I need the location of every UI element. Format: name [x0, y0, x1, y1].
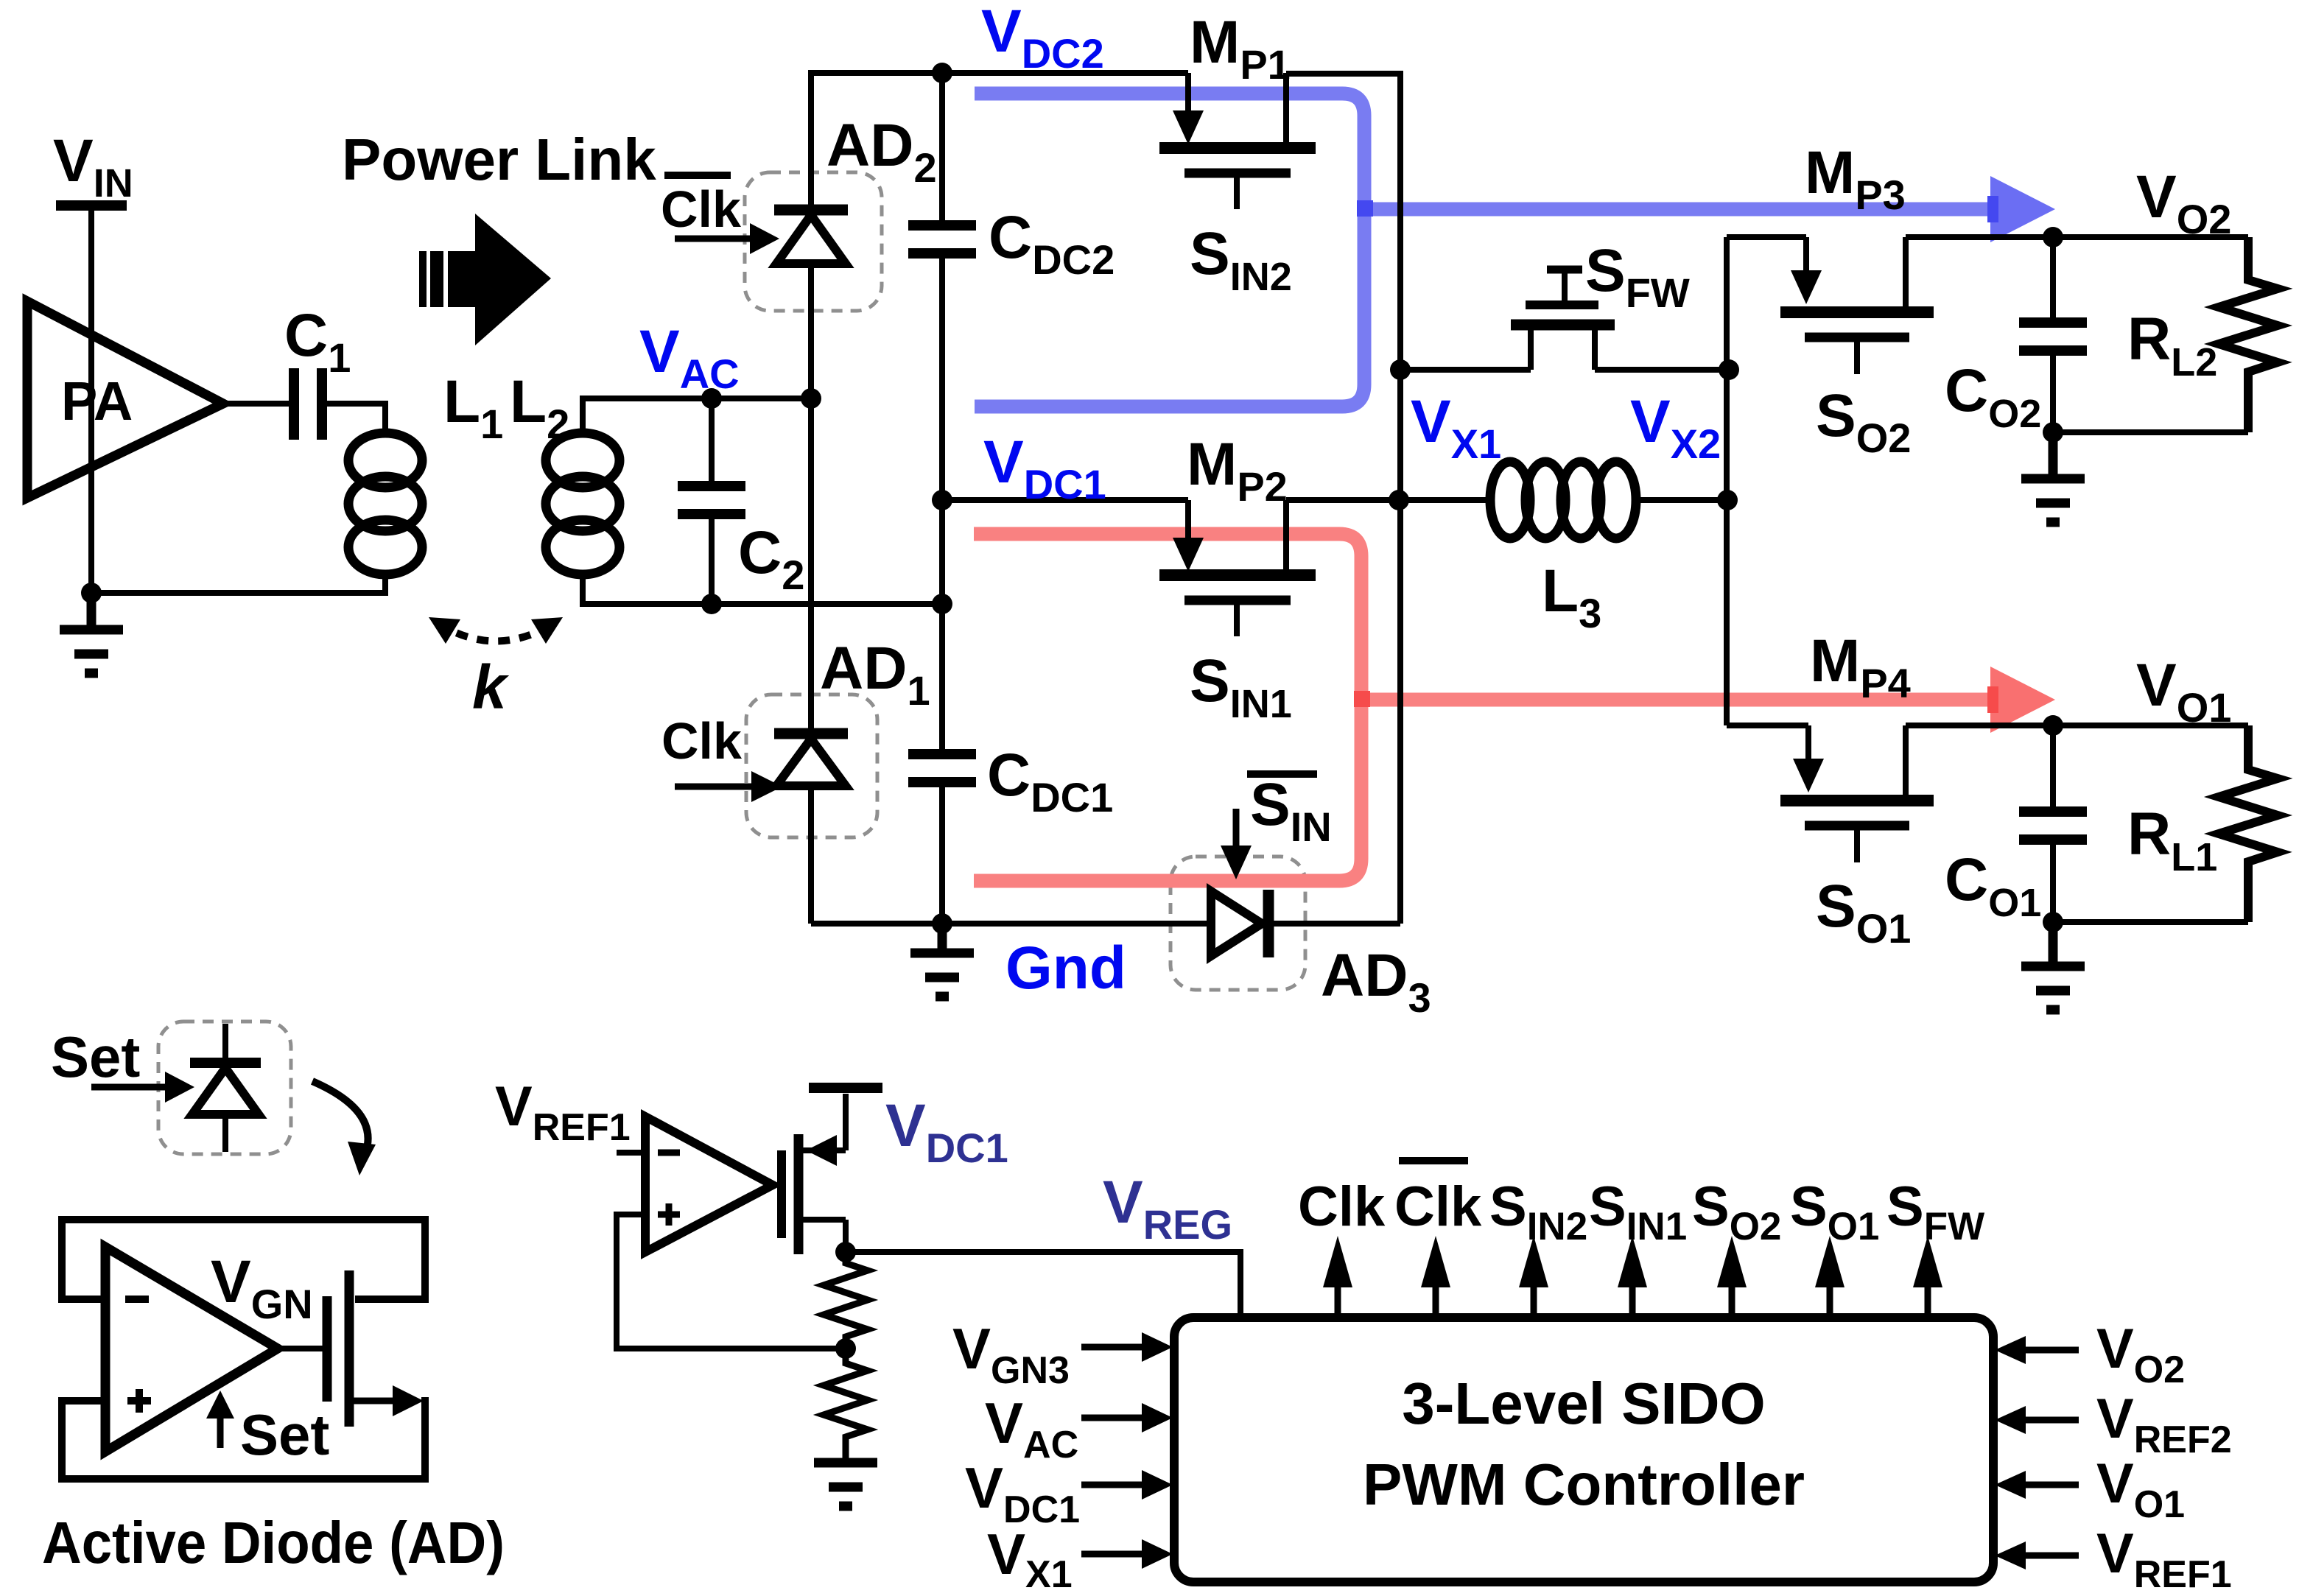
- wire L2 bottom return: [583, 574, 942, 604]
- blue arrow notch square: [1987, 196, 1998, 222]
- active diode AD2 (cathode bar + triangle): [774, 205, 848, 216]
- wire MP3 source to VO2 and RL2: [1906, 234, 2248, 240]
- node VO1: [2043, 715, 2063, 736]
- wire VO1 to CO1: [2050, 725, 2056, 812]
- input pin arrow VREF1: [1995, 1541, 2079, 1569]
- SIN-bar input arrow to AD3: [1233, 809, 1240, 847]
- active-diode dashed box AD2: [745, 172, 882, 311]
- wire VO2 to CO2: [2050, 237, 2056, 323]
- svg-text:3-Level SIDO: 3-Level SIDO: [1402, 1371, 1766, 1436]
- node divider mid: [835, 1338, 856, 1359]
- input pin arrow VX1: [1081, 1539, 1173, 1569]
- wire op-amp output to MOS gate (AD detail): [278, 1346, 323, 1351]
- capacitor CDC2: [908, 220, 976, 231]
- inductor L3: [1490, 462, 1636, 538]
- svg-text:Power Link: Power Link: [342, 127, 656, 192]
- active diode AD3 (triangle + cathode bar): [1211, 891, 1262, 956]
- node C2 return: [701, 594, 722, 614]
- resistor RL2: [2219, 237, 2278, 432]
- input pin arrow VDC1: [1081, 1470, 1173, 1500]
- controller box: [1174, 1318, 1993, 1582]
- wire L2 top to VAC node: [583, 398, 811, 433]
- wire CDC2 bottom to VDC1 rail: [939, 255, 945, 500]
- input pin arrow VGN3: [1081, 1332, 1173, 1362]
- Clk-bar input arrow to AD2: [675, 236, 751, 242]
- wire VX1 vertical: [1397, 367, 1403, 924]
- svg-text:Clk: Clk: [1298, 1175, 1386, 1238]
- node VX1/VDC1/L3: [1389, 490, 1409, 510]
- svg-text:PWM Controller: PWM Controller: [1363, 1452, 1805, 1517]
- red branch arrowhead: [1990, 667, 2055, 733]
- transistor MP3 (switch SO2): [1780, 237, 1934, 374]
- wire L1 bottom to ground rail: [91, 574, 385, 593]
- input pin arrow VO2: [1995, 1336, 2079, 1364]
- wire C1 to L1: [322, 404, 385, 433]
- blue current path branch to MP3: [1364, 203, 1990, 217]
- svg-text:Gnd: Gnd: [1005, 935, 1126, 1002]
- blue branch arrowhead: [1990, 176, 2055, 242]
- wire AD1 to ground rail: [808, 784, 814, 924]
- wire AD2 to VAC to AD1: [808, 261, 814, 734]
- blue current path loop (VDC2 through MP1 to VX1): [975, 94, 1364, 407]
- node VX2 (SFW tap): [1719, 359, 1739, 380]
- plus sign (regulator): [658, 1212, 680, 1218]
- node VO2: [2043, 227, 2063, 247]
- active-diode dashed box AD1: [746, 695, 877, 837]
- wire bottom feedback loop (AD detail): [62, 1401, 425, 1479]
- VDC1 rail: [942, 497, 1188, 503]
- coupling k dashed arc with arrowheads: [438, 623, 554, 641]
- op-amp (regulator) triangle: [645, 1117, 773, 1252]
- wire SFW to VX2: [1595, 367, 1729, 373]
- transistor MP1 (switch SIN2): [1159, 73, 1316, 209]
- active diode AD1 (cathode bar + triangle): [774, 728, 848, 739]
- node return to CDC1: [932, 594, 952, 614]
- output pin arrow SFW: [1913, 1236, 1942, 1319]
- ground (CO2): [2021, 432, 2085, 522]
- node PA ground junction: [81, 583, 102, 603]
- ground (divider): [814, 1463, 877, 1506]
- node CO1 bottom: [2043, 912, 2063, 932]
- Set arrow into op-amp (AD detail): [217, 1417, 224, 1448]
- output pin arrow SIN2: [1519, 1236, 1548, 1319]
- capacitor CO2: [2019, 317, 2087, 328]
- output pin arrow SO1: [1815, 1236, 1845, 1319]
- wire PA output to C1: [223, 401, 294, 407]
- capacitor CDC1: [908, 749, 976, 759]
- wire VX2 top to MP3 drain: [1727, 234, 1806, 240]
- output pin arrow SO2: [1717, 1236, 1747, 1319]
- source arrow (AD detail): [354, 1398, 394, 1405]
- wire CO2 bottom to RL2 bottom: [2053, 429, 2248, 435]
- output pin arrow SIN1: [1618, 1236, 1647, 1319]
- wire VIN to ground through PA: [88, 210, 94, 593]
- node VX2/L3: [1717, 490, 1738, 510]
- wire CO1 bottom: [2050, 841, 2056, 922]
- node VX1 (SFW tap): [1390, 359, 1411, 380]
- red current path branch to MP4: [1361, 693, 1990, 707]
- resistor RL1: [2219, 725, 2278, 922]
- wire CO2 bottom: [2050, 352, 2056, 432]
- transistor channel bar (AD detail): [345, 1270, 354, 1427]
- wire L3 left: [1399, 497, 1491, 503]
- blue junction square: [1357, 200, 1373, 217]
- diode (Set detail, cathode bar + triangle): [222, 1024, 228, 1152]
- active-diode dashed box AD3: [1170, 857, 1305, 990]
- node Gnd: [932, 913, 952, 934]
- node VREG: [835, 1242, 856, 1262]
- ground (Gnd): [910, 924, 974, 996]
- power link arrow icon: [419, 214, 551, 345]
- ground rail (Gnd to AD3 to VX1): [811, 921, 1211, 927]
- svg-text:Set: Set: [240, 1402, 329, 1467]
- plus sign (AD detail): [127, 1397, 151, 1405]
- output pin arrow Clk: [1323, 1236, 1352, 1319]
- svg-text:PA: PA: [61, 370, 133, 432]
- wire VREG to controller: [846, 1252, 1240, 1316]
- wire VX2 vertical: [1724, 237, 1730, 725]
- node CO2 bottom: [2043, 422, 2063, 443]
- node VAC/AD chain: [801, 388, 821, 409]
- resistor divider bottom: [824, 1349, 868, 1461]
- capacitor C2: [678, 481, 745, 491]
- wire C2 to return: [709, 516, 715, 604]
- VIN supply bar: [56, 200, 127, 211]
- minus sign (regulator): [658, 1150, 680, 1156]
- output pin arrow Clk-bar: [1421, 1236, 1450, 1319]
- resistor divider top: [824, 1252, 868, 1349]
- ground (CO1): [2021, 922, 2085, 1010]
- wire CDC1 bottom to ground rail: [939, 784, 945, 924]
- red junction square: [1354, 691, 1370, 707]
- wire VX2 bottom to MP4 drain: [1727, 723, 1808, 728]
- inductor L2: [546, 433, 619, 574]
- minus sign (AD detail): [125, 1296, 149, 1303]
- inductor L1: [348, 433, 422, 574]
- Clk input arrow to AD1: [675, 784, 751, 790]
- wire MP2 source to VX1 line: [1286, 497, 1399, 503]
- wire CO1 bottom to RL1 bottom: [2053, 919, 2248, 925]
- transistor SFW (freewheel switch): [1511, 270, 1615, 370]
- red arrow notch square: [1987, 686, 1998, 713]
- wire MP1 source to VX1: [1286, 74, 1400, 367]
- transistor gate bar (AD detail): [323, 1296, 332, 1402]
- transistor MP2 (switch SIN1): [1159, 500, 1316, 636]
- wire top feedback loop (AD detail): [62, 1220, 425, 1299]
- op-amp (AD detail) triangle: [105, 1247, 278, 1452]
- active-diode dashed box (Set detail): [158, 1022, 291, 1154]
- wire MP4 source to VO1 and RL1: [1906, 723, 2248, 728]
- wire AD chain vertical (VDC2 corner to AD2): [808, 73, 814, 210]
- wire L3 right to VX2: [1635, 497, 1727, 503]
- wire VDC1 node down to return node: [939, 500, 945, 754]
- capacitor C1: [289, 368, 299, 440]
- ground (PA): [60, 593, 123, 673]
- node VDC1/CDC2: [932, 490, 952, 510]
- wire VREF1 to minus input: [617, 1150, 645, 1156]
- svg-text:Clk: Clk: [661, 712, 742, 770]
- op-amp PA triangle: [27, 301, 223, 498]
- transistor MP4 (switch SO1): [1780, 725, 1934, 862]
- curved arrow to AD detail: [312, 1081, 368, 1153]
- wire VAC to C2: [709, 398, 715, 485]
- input pin arrow VO1: [1995, 1471, 2079, 1499]
- svg-text:k: k: [472, 653, 510, 722]
- input pin arrow VAC: [1081, 1403, 1173, 1432]
- input pin arrow VREF2: [1995, 1406, 2079, 1434]
- capacitor CO1: [2019, 806, 2087, 817]
- wire VX1 to SFW: [1400, 367, 1531, 373]
- svg-text:Clk: Clk: [661, 180, 741, 238]
- svg-text:Set: Set: [51, 1024, 140, 1089]
- node VDC2/CDC2: [932, 63, 952, 83]
- transistor pass PMOS (regulator): [782, 1088, 882, 1254]
- VDC2 rail: [808, 70, 1188, 76]
- red current path loop (VDC1 through MP2 to Gnd/AD3): [974, 534, 1361, 881]
- Set input arrow to diode symbol: [91, 1084, 166, 1091]
- node VAC/C2: [701, 388, 722, 409]
- svg-text:Active Diode (AD): Active Diode (AD): [42, 1510, 505, 1575]
- svg-text:Clk: Clk: [1394, 1175, 1482, 1238]
- wire feedback to plus input: [617, 1214, 846, 1349]
- wire CDC2 top: [939, 73, 945, 225]
